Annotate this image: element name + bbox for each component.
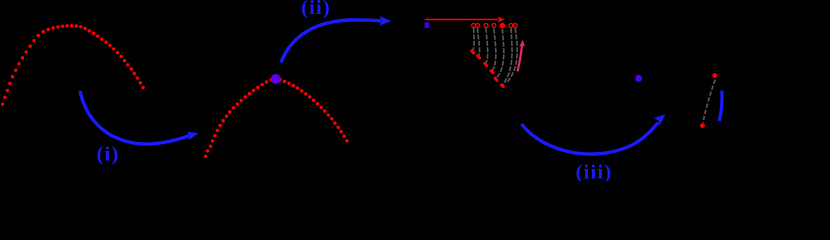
gray trajectory arcs (fan) — [473, 28, 517, 86]
arrowhead (iii) — [654, 114, 666, 125]
svg-text:(ii): (ii) — [301, 0, 331, 19]
filled red limit dot in row — [500, 23, 506, 29]
magenta direction arrow — [518, 45, 523, 72]
arrow (ii) — [281, 20, 381, 63]
red line with arrow (blow-up axis) — [425, 19, 499, 21]
purple point (singular point) — [635, 75, 642, 82]
arrow (iii) — [522, 123, 659, 155]
red dash markers on diagonal — [470, 49, 506, 89]
gray dashed limit arc — [703, 80, 715, 123]
dotted curve 1 (initial red dotted hump) — [1, 24, 145, 106]
arrowhead (ii) — [379, 16, 392, 26]
purple maximum point on curve 2 — [271, 74, 281, 84]
red arrowhead — [498, 16, 505, 22]
red endpoint top (limit curve) — [712, 73, 717, 78]
dotted curve 2 (translated hump) — [204, 77, 349, 158]
arrow (i) — [80, 91, 190, 144]
blue arc segment — [719, 91, 722, 122]
red endpoint bottom (limit curve) — [700, 123, 705, 128]
arrowhead (i) — [187, 132, 199, 141]
svg-text:(i): (i) — [97, 144, 120, 166]
svg-text:(iii): (iii) — [576, 162, 613, 182]
row of small red circles (rescaled solutions) — [472, 24, 518, 28]
magenta arrowhead — [519, 40, 525, 47]
blue square marker — [425, 22, 430, 27]
